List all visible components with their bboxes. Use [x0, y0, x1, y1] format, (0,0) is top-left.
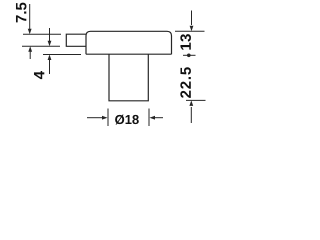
dimension line 13 upper stem	[191, 11, 193, 26]
dimension line diameter left stem	[87, 117, 103, 119]
extension line cylinder bottom right	[186, 99, 206, 101]
extension line head top right	[175, 30, 205, 32]
extension line cylinder left bottom	[107, 109, 109, 127]
dimension line 4 lower stem	[49, 60, 51, 74]
arrowhead 4 down	[48, 41, 52, 47]
cylinder base outline	[109, 54, 148, 101]
dimension line 7.5 lower stem	[29, 51, 31, 59]
knob head outline	[86, 31, 172, 54]
arrowhead 22.5 up	[189, 100, 193, 106]
dimension line 22.5 lower stem	[190, 107, 192, 123]
label 13	[180, 34, 191, 50]
extension line cylinder right bottom	[148, 109, 150, 127]
arrowhead 7.5 down	[28, 29, 32, 35]
label 7.5	[16, 3, 26, 23]
extension line stub top left	[23, 33, 61, 35]
label 4	[34, 71, 44, 79]
extension line head bottom right	[183, 54, 196, 56]
arrowhead diameter right-pointing	[102, 116, 108, 120]
label diameter 18	[115, 115, 139, 125]
dimension line 4 upper stem	[49, 28, 51, 41]
junction dot 13 and 22.5	[187, 54, 191, 58]
head bottom edge	[86, 53, 172, 55]
dimension line diameter right stem	[155, 117, 163, 119]
label 22.5	[180, 67, 191, 98]
extension line stub bottom left	[22, 45, 60, 47]
arrowhead diameter left-pointing	[150, 116, 156, 120]
extension line head bottom left	[43, 54, 81, 56]
dimension line 7.5 upper stem	[29, 4, 31, 30]
stub (spigot) outline	[66, 34, 86, 46]
arrowhead 4 up	[48, 55, 52, 61]
arrowhead 7.5 up	[28, 46, 32, 52]
arrowhead 13 down	[190, 26, 194, 32]
